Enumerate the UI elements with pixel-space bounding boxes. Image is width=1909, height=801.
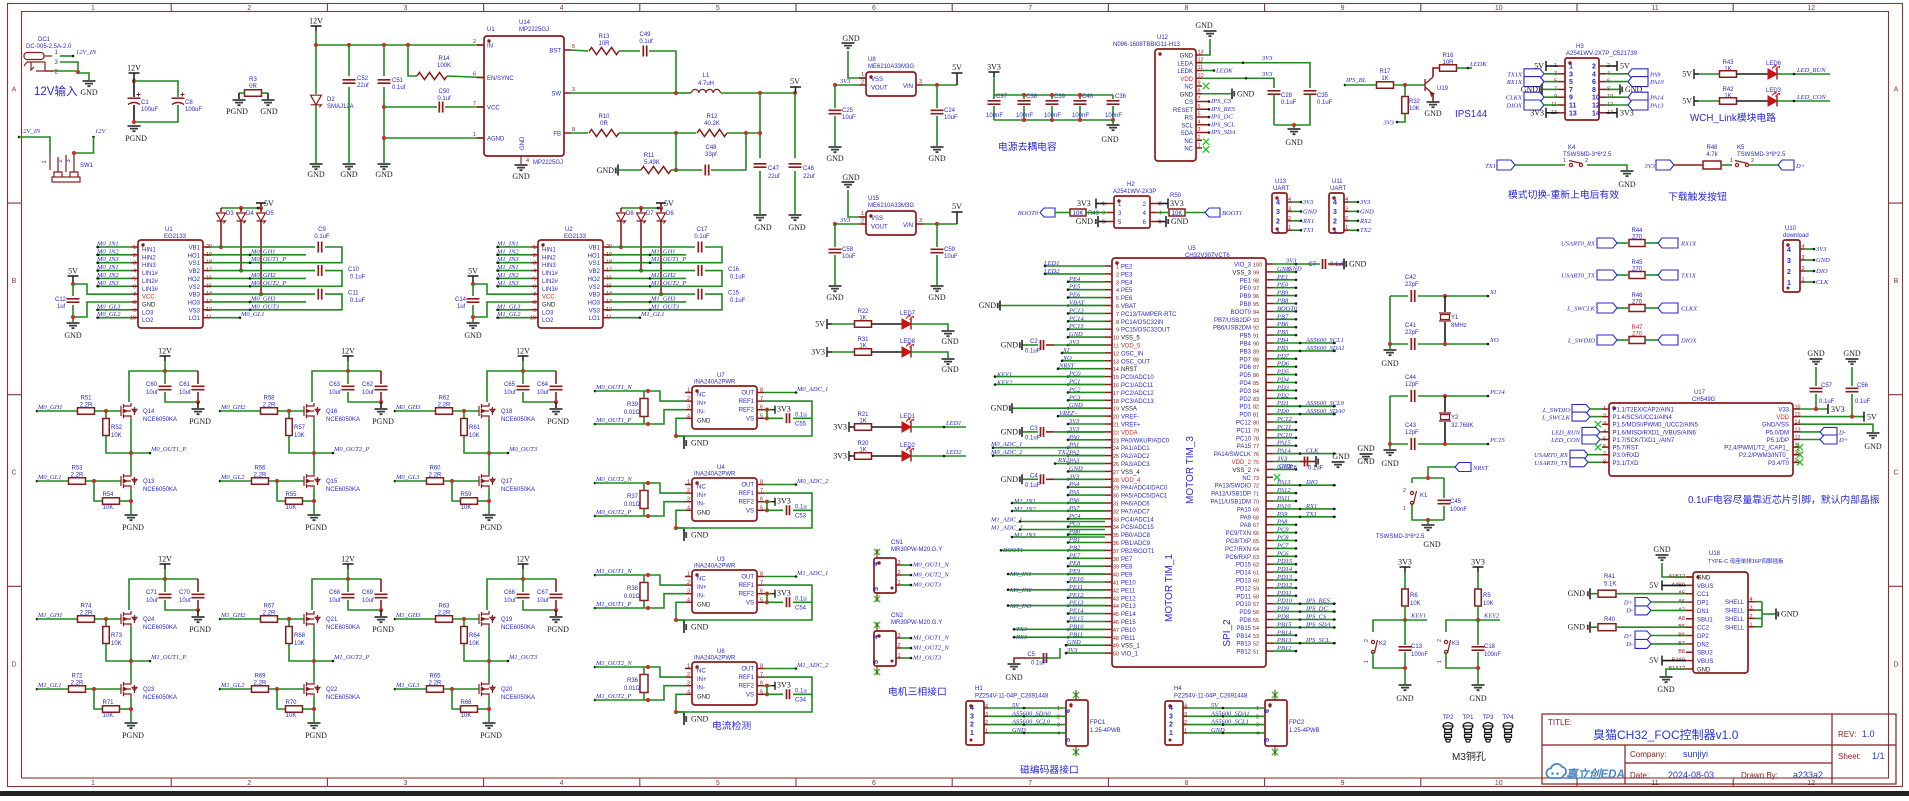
wire stub xyxy=(1008,589,1105,591)
wire stub xyxy=(1008,573,1105,575)
svg-text:NCE6050KA: NCE6050KA xyxy=(326,417,360,423)
svg-text:AS5600_SDA1: AS5600_SDA1 xyxy=(1210,710,1250,717)
svg-text:PZ254V-11-04P_C2691448: PZ254V-11-04P_C2691448 xyxy=(975,694,1049,700)
svg-text:5V: 5V xyxy=(1682,97,1692,106)
wire/net PB2 xyxy=(1068,549,1105,551)
svg-text:PA3/ADC3: PA3/ADC3 xyxy=(1121,462,1150,468)
pin 3 SDA xyxy=(1196,132,1202,134)
svg-text:0.1uF: 0.1uF xyxy=(1025,349,1041,355)
svg-text:7: 7 xyxy=(1603,452,1606,458)
svg-text:22pF: 22pF xyxy=(1405,330,1419,336)
svg-text:C67: C67 xyxy=(537,590,549,596)
svg-text:R63: R63 xyxy=(438,604,450,610)
svg-text:6: 6 xyxy=(1159,220,1162,226)
svg-text:4: 4 xyxy=(1159,211,1162,217)
svg-text:PA8: PA8 xyxy=(1240,523,1252,529)
pin 82 PD1 xyxy=(1266,405,1273,407)
svg-text:LED1: LED1 xyxy=(1043,260,1060,267)
svg-text:R71: R71 xyxy=(102,700,114,706)
svg-text:22uf: 22uf xyxy=(357,83,369,89)
svg-text:HIN3: HIN3 xyxy=(542,263,556,269)
svg-text:0.1u: 0.1u xyxy=(795,504,807,510)
svg-text:2: 2 xyxy=(1288,216,1291,222)
svg-text:PA2/ADC2: PA2/ADC2 xyxy=(1121,454,1150,460)
svg-text:0.1uF: 0.1uF xyxy=(730,275,746,281)
net label KEY2 xyxy=(1478,619,1500,621)
svg-text:92: 92 xyxy=(1253,326,1259,332)
svg-text:NCE6050KA: NCE6050KA xyxy=(143,625,177,631)
net label M1_OUT3 xyxy=(489,660,508,662)
pin 4 LIN1# xyxy=(531,270,538,272)
svg-text:GND: GND xyxy=(1005,673,1023,682)
svg-text:C44: C44 xyxy=(1405,375,1417,381)
svg-text:PD15: PD15 xyxy=(1236,563,1252,569)
svg-text:VB2: VB2 xyxy=(589,269,601,275)
net label M1_IN2 xyxy=(496,254,531,256)
svg-text:VSS_3: VSS_3 xyxy=(1232,270,1251,276)
wire/net PC13 xyxy=(1068,312,1105,314)
svg-text:PA0: PA0 xyxy=(1068,434,1080,441)
svg-text:IPS_SDA: IPS_SDA xyxy=(1210,129,1236,136)
shunt resistor R39 0.01 xyxy=(640,399,648,417)
net label RX1X xyxy=(1658,238,1678,248)
svg-text:PGND: PGND xyxy=(122,523,144,532)
net label BOOT1 xyxy=(1205,208,1220,217)
svg-text:C10: C10 xyxy=(348,267,360,273)
svg-text:LO1: LO1 xyxy=(589,316,601,322)
resistor R59 10K xyxy=(452,481,460,501)
power flag 3V3 (R6) xyxy=(1400,567,1411,572)
svg-text:FPC2: FPC2 xyxy=(1289,720,1305,726)
svg-text:M1_OUT2_N: M1_OUT2_N xyxy=(912,645,949,652)
svg-text:5: 5 xyxy=(873,587,880,591)
pin 5 PE6 xyxy=(1105,297,1112,299)
svg-text:3: 3 xyxy=(1102,211,1105,217)
net label M1_GH1 xyxy=(36,618,39,621)
wire/net PC15 xyxy=(1068,328,1105,330)
svg-text:NC: NC xyxy=(1242,476,1251,482)
svg-text:VSS: VSS xyxy=(871,77,883,83)
svg-text:3: 3 xyxy=(133,261,136,267)
svg-text:M1_OUT1_N: M1_OUT1_N xyxy=(595,568,632,575)
svg-text:100nF: 100nF xyxy=(1450,507,1467,513)
svg-text:XO: XO xyxy=(1062,355,1072,362)
svg-text:A: A xyxy=(1894,87,1899,94)
wire/net GND xyxy=(1068,407,1105,409)
resistor R70 10K xyxy=(277,689,285,709)
svg-text:1: 1 xyxy=(687,388,690,394)
svg-text:C6: C6 xyxy=(1289,466,1297,472)
svg-text:K1: K1 xyxy=(1420,493,1428,499)
svg-text:C64: C64 xyxy=(537,382,549,388)
pin 6 VBAT xyxy=(1105,305,1112,307)
svg-text:DP1: DP1 xyxy=(1697,601,1709,607)
svg-text:L_SWCLK: L_SWCLK xyxy=(1566,306,1595,313)
svg-text:3: 3 xyxy=(1787,258,1791,265)
svg-text:12V: 12V xyxy=(516,555,530,564)
svg-text:PD7: PD7 xyxy=(1276,353,1290,360)
svg-text:CN2: CN2 xyxy=(891,613,904,619)
pin 6 xyxy=(1599,81,1606,83)
wire IN+ path xyxy=(595,391,685,401)
wire/net GND xyxy=(1068,470,1105,472)
pin 67 PA8 xyxy=(1266,524,1273,526)
wire/net XI xyxy=(1062,352,1105,354)
wire 12V rail xyxy=(165,361,198,371)
svg-text:XI: XI xyxy=(1489,289,1497,296)
svg-text:12: 12 xyxy=(1113,351,1119,357)
svg-text:PGND: PGND xyxy=(189,625,211,634)
svg-text:5: 5 xyxy=(1264,738,1271,742)
net label LED_RUN xyxy=(1777,73,1830,75)
svg-text:PC2: PC2 xyxy=(1068,386,1081,393)
svg-text:GND: GND xyxy=(1001,341,1019,350)
pin 2 NC xyxy=(1196,139,1202,141)
svg-text:R38: R38 xyxy=(627,586,639,592)
capacitor C69 10uf xyxy=(380,579,382,592)
svg-text:B8: B8 xyxy=(1678,649,1685,655)
svg-text:R51: R51 xyxy=(80,396,92,402)
svg-text:10K: 10K xyxy=(111,641,122,647)
wire stub xyxy=(1020,521,1105,523)
svg-text:PC9: PC9 xyxy=(1276,527,1289,534)
svg-text:R22: R22 xyxy=(857,309,869,315)
pin 3 M1_OUT1_N xyxy=(896,637,901,639)
svg-text:2: 2 xyxy=(1751,158,1754,164)
svg-text:C50: C50 xyxy=(438,89,450,95)
svg-text:TP3: TP3 xyxy=(1482,715,1494,721)
svg-text:TP4: TP4 xyxy=(1502,715,1514,721)
svg-text:33pf: 33pf xyxy=(705,152,717,158)
svg-text:LO2: LO2 xyxy=(142,318,154,324)
svg-text:BOOT0: BOOT0 xyxy=(1277,305,1298,312)
switch K1 TSWSMD-3*6*2.5 xyxy=(1411,478,1413,483)
pin B7 DN2 xyxy=(1686,643,1693,645)
net label M0_ADC_2 xyxy=(764,484,796,486)
capacitor C61 10uf xyxy=(197,371,199,384)
svg-text:LO2: LO2 xyxy=(542,318,554,324)
svg-text:5: 5 xyxy=(1102,220,1105,226)
pin 15 VS2 xyxy=(603,285,610,287)
svg-text:sunjiyi: sunjiyi xyxy=(1683,749,1708,759)
net label M0_GL3 xyxy=(394,480,397,483)
svg-text:IPS144: IPS144 xyxy=(1455,109,1488,120)
svg-text:3V3: 3V3 xyxy=(839,78,851,85)
svg-text:M1_OUT3: M1_OUT3 xyxy=(912,655,942,662)
svg-text:PD6: PD6 xyxy=(1239,365,1251,371)
svg-text:67: 67 xyxy=(1253,523,1259,529)
svg-text:NC: NC xyxy=(1184,139,1193,145)
svg-text:M0_GH3: M0_GH3 xyxy=(395,404,421,411)
svg-text:1: 1 xyxy=(970,730,974,737)
net label M1_OUT2_P xyxy=(594,699,597,702)
svg-text:C56: C56 xyxy=(1857,383,1869,389)
svg-text:78: 78 xyxy=(1253,436,1259,442)
svg-text:R65: R65 xyxy=(429,674,441,680)
pin 6 RESET xyxy=(1196,108,1202,110)
net label M0_ADC_1 xyxy=(764,392,796,394)
pin 12 xyxy=(1599,104,1606,106)
pin 81 PD0 xyxy=(1266,413,1273,415)
svg-text:M0_OUT2_P: M0_OUT2_P xyxy=(333,446,369,453)
svg-text:LED_RUN: LED_RUN xyxy=(1796,67,1826,74)
svg-text:M0_OUT2_P: M0_OUT2_P xyxy=(595,509,631,516)
svg-text:D+: D+ xyxy=(1623,600,1633,607)
svg-text:54: 54 xyxy=(1253,626,1259,632)
pin 14 VB3 xyxy=(203,293,210,295)
svg-text:4: 4 xyxy=(1184,704,1187,710)
svg-text:4: 4 xyxy=(133,269,136,275)
svg-text:Q16: Q16 xyxy=(326,409,338,415)
pin 8 OUT xyxy=(757,668,764,670)
svg-text:C13: C13 xyxy=(1411,644,1423,650)
wire + net label PD11 xyxy=(1273,595,1296,597)
svg-text:ME6210A33M3G: ME6210A33M3G xyxy=(868,64,914,70)
capacitor C57 0.1uF xyxy=(1815,367,1817,386)
wire LEDA to 3V3 xyxy=(1202,63,1310,88)
pin 24 PA1/ADC1 xyxy=(1105,447,1112,449)
pin 57 PD10 xyxy=(1266,603,1273,605)
ground (D2) xyxy=(310,164,323,169)
svg-text:PB8: PB8 xyxy=(1240,302,1252,308)
net flag D+ (K5) xyxy=(1778,160,1794,170)
svg-text:C39: C39 xyxy=(1054,94,1066,100)
wire REF loop xyxy=(676,585,812,620)
svg-text:Q18: Q18 xyxy=(501,409,513,415)
svg-text:4: 4 xyxy=(560,5,564,12)
pin 3 HIN3 xyxy=(531,262,538,264)
power flag 12V (buck) xyxy=(311,26,322,31)
capacitor C1 100uF xyxy=(128,97,141,99)
wire/net PA3 xyxy=(1068,463,1105,465)
svg-text:0.1uf: 0.1uf xyxy=(392,85,406,91)
svg-text:5: 5 xyxy=(716,780,720,787)
svg-text:VCC: VCC xyxy=(542,295,555,301)
svg-text:M0_OUT2_N: M0_OUT2_N xyxy=(595,476,632,483)
svg-text:PD13: PD13 xyxy=(1236,579,1252,585)
svg-text:C41: C41 xyxy=(1405,323,1417,329)
pin 9 LO3 xyxy=(531,309,538,311)
svg-text:2: 2 xyxy=(1276,218,1280,225)
svg-text:3: 3 xyxy=(1184,712,1187,718)
svg-text:8: 8 xyxy=(1184,780,1188,787)
pin 9 PC15/OSC32OUT xyxy=(1105,328,1112,330)
svg-text:D+: D+ xyxy=(1795,163,1805,170)
wire/net PC2 xyxy=(1068,391,1105,393)
svg-text:D-: D- xyxy=(1625,641,1633,648)
pin 79 PC11 xyxy=(1266,429,1273,431)
svg-text:D: D xyxy=(1893,661,1898,668)
svg-text:IN-: IN- xyxy=(697,410,705,416)
svg-text:IN+: IN+ xyxy=(697,585,707,591)
svg-text:10uf: 10uf xyxy=(537,390,549,396)
svg-text:PC3/ADC13: PC3/ADC13 xyxy=(1121,399,1154,405)
svg-text:68: 68 xyxy=(1253,515,1259,521)
net flag RX1X xyxy=(1524,77,1544,87)
wire stub xyxy=(1012,510,1105,512)
svg-text:10uf: 10uf xyxy=(362,390,374,396)
svg-text:REF1: REF1 xyxy=(739,399,755,405)
pin 66 PC9/TXN xyxy=(1266,532,1273,534)
net label M1_IN3 xyxy=(496,285,531,287)
pin 9 LO3 xyxy=(131,309,138,311)
pin 7 VCC xyxy=(531,293,538,295)
pin 1 P1.1/T2EX/CAP2/AIN1 xyxy=(1602,408,1609,410)
svg-text:5: 5 xyxy=(716,5,720,12)
svg-text:U11: U11 xyxy=(1332,179,1343,185)
svg-text:3V3: 3V3 xyxy=(1261,55,1273,62)
net label M1_IN1 xyxy=(496,246,531,248)
pin 19 VSSA xyxy=(1105,407,1112,409)
svg-text:VS3: VS3 xyxy=(589,308,601,314)
svg-text:14: 14 xyxy=(1795,420,1801,426)
wire + net label PB12 xyxy=(1273,650,1296,652)
pin 78 PC10 xyxy=(1266,437,1273,439)
pin 12 VS3 xyxy=(603,309,610,311)
pin 5 xyxy=(1558,81,1565,83)
diode D7 xyxy=(640,208,642,212)
svg-text:M0_IN2: M0_IN2 xyxy=(96,248,119,255)
svg-text:PA15: PA15 xyxy=(1237,444,1252,450)
pin 13 HO3 xyxy=(603,301,610,303)
wire + net label PE0 xyxy=(1273,287,1296,289)
pin 23 PA0/WKUP/ADC0 xyxy=(1105,439,1112,441)
net label M0_GH1 xyxy=(210,254,306,256)
svg-text:U14: U14 xyxy=(519,20,531,26)
net label LED_CON xyxy=(1777,100,1830,102)
svg-text:GND: GND xyxy=(788,223,806,232)
svg-text:GND: GND xyxy=(691,715,709,724)
svg-text:13: 13 xyxy=(1795,427,1801,433)
svg-text:40.2K: 40.2K xyxy=(704,121,720,127)
svg-text:1: 1 xyxy=(473,132,476,138)
svg-text:M0_OUT1_P: M0_OUT1_P xyxy=(250,256,286,263)
pin 17 PC2/ADC12 xyxy=(1105,391,1112,393)
power flag 5V (LED3) xyxy=(1694,96,1699,106)
svg-text:5V: 5V xyxy=(1649,581,1659,590)
ground (U14) xyxy=(515,165,528,170)
svg-text:M1_OUT1_N: M1_OUT1_N xyxy=(912,635,949,642)
svg-text:R45: R45 xyxy=(1631,260,1643,266)
svg-text:MP2225GJ: MP2225GJ xyxy=(519,27,549,33)
svg-text:1: 1 xyxy=(1603,406,1606,412)
wire + net label PD12 xyxy=(1273,587,1296,589)
svg-text:P1.1/T2EX/CAP2/AIN1: P1.1/T2EX/CAP2/AIN1 xyxy=(1613,408,1675,414)
svg-text:7: 7 xyxy=(1198,96,1201,102)
svg-text:1: 1 xyxy=(687,664,690,670)
svg-text:C68: C68 xyxy=(329,590,341,596)
capacitor C45 100nF xyxy=(1443,478,1445,498)
svg-text:R17: R17 xyxy=(1379,69,1391,75)
svg-text:7: 7 xyxy=(760,580,763,586)
pin 75 VDD_2 xyxy=(1266,461,1273,463)
svg-text:PGND: PGND xyxy=(125,134,147,143)
svg-text:10K: 10K xyxy=(1409,106,1420,112)
pin 1 NC xyxy=(1196,147,1202,149)
pin 35 PB0/ADC8 xyxy=(1105,534,1112,536)
svg-text:R16: R16 xyxy=(1442,53,1454,59)
svg-text:IN-: IN- xyxy=(697,686,705,692)
svg-text:D7: D7 xyxy=(646,211,654,217)
pin 14 VB3 xyxy=(603,293,610,295)
svg-text:0.01Ω: 0.01Ω xyxy=(624,410,641,416)
pin 3 IN- xyxy=(685,409,692,411)
svg-text:3V3: 3V3 xyxy=(777,405,791,414)
svg-text:L_SWDIO: L_SWDIO xyxy=(1542,407,1570,414)
pin 10 LO2 xyxy=(531,317,538,319)
pin 33 PC4/ADC14 xyxy=(1105,518,1112,520)
svg-text:3: 3 xyxy=(919,218,922,224)
svg-text:3: 3 xyxy=(1198,127,1201,133)
svg-text:PB13: PB13 xyxy=(1236,642,1251,648)
svg-text:C17: C17 xyxy=(696,227,708,233)
svg-text:100uF: 100uF xyxy=(185,107,202,113)
svg-text:1: 1 xyxy=(91,780,95,787)
svg-text:0.1uF: 0.1uF xyxy=(1317,100,1333,106)
pin 18 VS1 xyxy=(203,262,210,264)
pin 11 VDD_5 xyxy=(1105,344,1112,346)
svg-text:49: 49 xyxy=(1113,644,1119,650)
svg-text:RS: RS xyxy=(1185,116,1193,122)
svg-text:84: 84 xyxy=(1253,389,1259,395)
svg-text:6: 6 xyxy=(533,284,536,290)
capacitor C38 100nF xyxy=(1022,93,1026,97)
svg-text:22uf: 22uf xyxy=(768,174,780,180)
svg-text:REV:: REV: xyxy=(1838,730,1856,739)
svg-text:R72: R72 xyxy=(71,674,83,680)
svg-text:C36: C36 xyxy=(1115,94,1127,100)
svg-text:PB10: PB10 xyxy=(1121,628,1136,634)
svg-text:Y2: Y2 xyxy=(1451,415,1459,421)
ground PGND (Q13) xyxy=(125,515,138,520)
svg-text:Y1: Y1 xyxy=(1451,315,1459,321)
svg-text:5: 5 xyxy=(1065,738,1072,742)
svg-text:M1_ADC_1: M1_ADC_1 xyxy=(990,517,1022,524)
wire/net PE15 xyxy=(1068,621,1105,623)
capacitor C2 0.1uF + ground flag xyxy=(1022,344,1038,346)
svg-text:IPS_CS: IPS_CS xyxy=(1305,614,1327,621)
svg-text:C49: C49 xyxy=(639,32,651,38)
svg-text:PA5/ADC5/DAC1: PA5/ADC5/DAC1 xyxy=(1121,494,1168,500)
resistor R71 10K xyxy=(94,689,102,709)
ground (K2) xyxy=(1399,685,1412,690)
svg-text:100uF: 100uF xyxy=(141,107,158,113)
svg-text:V33: V33 xyxy=(1778,408,1789,414)
pin 4 SCL xyxy=(1196,124,1202,126)
svg-text:PA9: PA9 xyxy=(1276,511,1288,518)
wire REF loop xyxy=(676,677,812,712)
wire/net NRST xyxy=(1058,368,1105,370)
svg-text:Q21: Q21 xyxy=(326,617,338,623)
capacitor C37 100nF xyxy=(993,95,995,99)
wire SW node xyxy=(571,92,676,94)
pin 1 xyxy=(1107,203,1114,205)
svg-text:NRST: NRST xyxy=(1058,363,1075,370)
transistor Q24 NCE6050KA xyxy=(121,611,137,627)
svg-text:C9: C9 xyxy=(318,227,326,233)
svg-text:GND: GND xyxy=(512,172,530,181)
svg-text:5: 5 xyxy=(760,597,763,603)
svg-text:21: 21 xyxy=(1113,423,1119,429)
svg-text:PC0/ADC10: PC0/ADC10 xyxy=(1121,375,1154,381)
wire/net PA6 xyxy=(1068,502,1105,504)
svg-text:22: 22 xyxy=(1113,430,1119,436)
svg-text:Q22: Q22 xyxy=(326,687,338,693)
svg-text:PC13/TAMPER-RTC: PC13/TAMPER-RTC xyxy=(1121,312,1177,318)
svg-text:CS: CS xyxy=(1185,100,1193,106)
svg-text:97: 97 xyxy=(1253,286,1259,292)
pin 2 HIN2 xyxy=(131,254,138,256)
